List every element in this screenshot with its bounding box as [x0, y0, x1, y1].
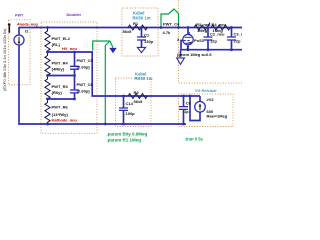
svg-text:12p: 12p: [210, 39, 217, 44]
svg-text:PWT: PWT: [15, 13, 24, 17]
svg-text:100p: 100p: [126, 111, 136, 116]
svg-text:C2_neu: C2_neu: [210, 31, 225, 36]
svg-text:#V2: #V2: [207, 97, 215, 102]
svg-text:[geom 1Meg a=0.6: [geom 1Meg a=0.6: [177, 52, 212, 57]
svg-text:56x5: 56x5: [123, 29, 133, 34]
svg-text:C3_n: C3_n: [234, 31, 243, 36]
svg-text:PWT_C4: PWT_C4: [163, 22, 180, 27]
svg-text:R1: R1: [133, 21, 139, 26]
svg-text:PWT_R4: PWT_R4: [52, 60, 69, 65]
svg-text:3: 3: [177, 37, 180, 42]
svg-text:130p: 130p: [144, 39, 154, 44]
svg-text:{13*R6y}: {13*R6y}: [52, 112, 69, 117]
svg-text:{0.60p}: {0.60p}: [77, 64, 91, 69]
svg-text:R4_neu: R4_neu: [212, 22, 227, 27]
svg-text:C8: C8: [186, 100, 192, 105]
svg-text:I2: I2: [25, 29, 29, 34]
svg-text:PWT_C5: PWT_C5: [77, 58, 94, 63]
svg-text:VG Refclust: VG Refclust: [195, 89, 217, 93]
svg-text:{RL}: {RL}: [52, 42, 61, 47]
svg-text:Kathode_neu: Kathode_neu: [52, 118, 78, 123]
svg-text:1: 1: [189, 30, 192, 35]
svg-text:.param R1 1Meg: .param R1 1Meg: [107, 138, 142, 143]
svg-text:Anode_neg: Anode_neg: [17, 23, 38, 27]
svg-text:PWT_EL2: PWT_EL2: [52, 36, 71, 41]
svg-text:.tran 0 5s: .tran 0 5s: [185, 137, 204, 142]
svg-text:RK50 1m: RK50 1m: [135, 76, 153, 81]
svg-text:RK50 1m: RK50 1m: [133, 15, 151, 20]
svg-text:4.7k: 4.7k: [163, 30, 172, 35]
svg-text:HV_neu: HV_neu: [62, 46, 77, 51]
svg-text:PoS1: PoS1: [194, 38, 205, 43]
svg-text:1p: 1p: [184, 109, 189, 114]
svg-text:Doubler: Doubler: [67, 12, 82, 17]
svg-text:PWT_R3: PWT_R3: [52, 84, 69, 89]
svg-text:22p: 22p: [234, 39, 241, 44]
svg-text:1Meg: 1Meg: [197, 28, 208, 33]
svg-text:PWT_C6: PWT_C6: [77, 82, 94, 87]
svg-text:Raw=1Meg: Raw=1Meg: [207, 113, 228, 118]
svg-text:R3_neu: R3_neu: [196, 22, 211, 27]
svg-text:{R6y}: {R6y}: [52, 90, 63, 95]
svg-text:(EXP0 48k 23n 0.1n 151n 120n 5: (EXP0 48k 23n 0.1n 151n 120n 5s): [2, 28, 7, 91]
svg-text:56x5: 56x5: [134, 99, 144, 104]
svg-text:R3: R3: [134, 90, 140, 95]
svg-text:PWT_R6: PWT_R6: [52, 104, 69, 109]
svg-text:.param B0y 0.9Meg: .param B0y 0.9Meg: [107, 131, 148, 136]
svg-text:C14: C14: [126, 101, 134, 106]
svg-text:{4R6y}: {4R6y}: [52, 66, 65, 71]
svg-text:{0.60p}: {0.60p}: [77, 88, 91, 93]
svg-text:C1: C1: [144, 32, 150, 37]
